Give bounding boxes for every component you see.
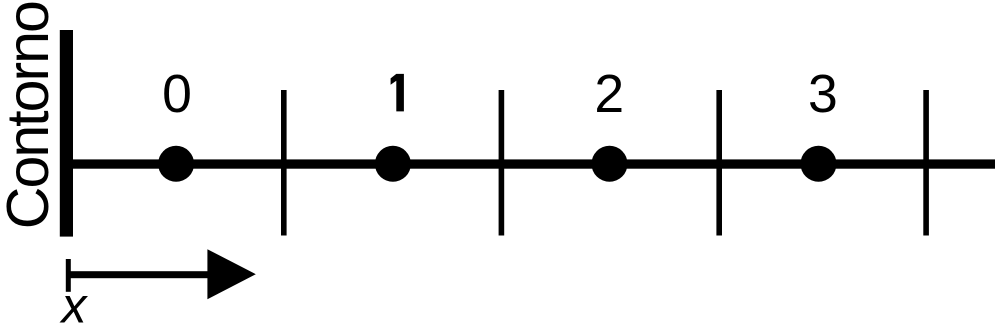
x-axis origin tick	[66, 259, 71, 292]
face tick f2	[499, 90, 505, 236]
x-axis arrowhead	[207, 249, 255, 299]
face tick f3	[716, 90, 722, 236]
node 2	[592, 146, 628, 182]
boundary wall	[60, 30, 73, 237]
x-axis wire	[68, 271, 215, 278]
svg-text:3: 3	[808, 65, 838, 124]
face tick f4	[923, 90, 929, 236]
node 0	[158, 146, 194, 182]
face tick f1	[281, 90, 287, 236]
main axis wire	[73, 159, 995, 168]
svg-text:x: x	[60, 278, 89, 333]
svg-text:0: 0	[162, 65, 192, 124]
node 1 label (Arial-style 1 drawn as path)	[391, 74, 404, 112]
svg-text:2: 2	[594, 65, 624, 124]
node 3	[801, 146, 837, 182]
node 1	[375, 146, 411, 182]
svg-text:Contorno: Contorno	[0, 2, 61, 229]
